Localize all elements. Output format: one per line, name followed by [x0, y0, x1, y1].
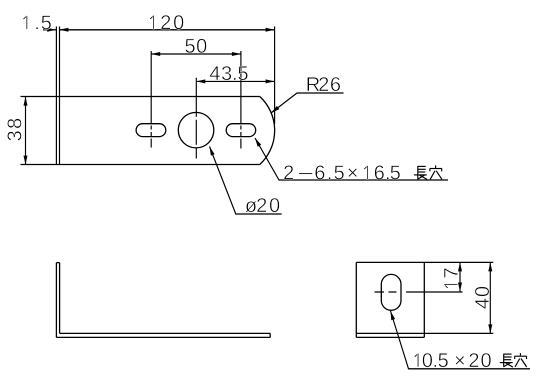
- L right cap: [269, 333, 271, 337]
- kanji 穴 (bottom): [515, 353, 527, 367]
- text 50: [185, 39, 206, 53]
- top view: plate right end arc R26: [260, 97, 275, 165]
- end view slot 10.5x20: [381, 274, 401, 310]
- arrow 1.5 left (tip x56.2 pointing right): [47, 28, 56, 32]
- end view: [356, 262, 493, 337]
- dim line 50: [151, 53, 241, 55]
- arrowheads top view: [24, 28, 280, 165]
- L outer left vertical: [55, 263, 57, 338]
- L inner vertical: [59, 263, 61, 334]
- centerline right slot: [240, 51, 242, 149]
- dim line 40: [489, 262, 491, 333]
- kanji 長穴 top: [414, 165, 442, 179]
- arrow leader 10.5x20: [391, 311, 396, 320]
- arrow slot leader: [255, 138, 261, 147]
- dim line 120: [59, 29, 274, 31]
- underline 10.5x20: [409, 368, 531, 370]
- text 40 rotated: [475, 287, 489, 309]
- text 1.5: [23, 16, 51, 30]
- leader R26: [271, 93, 344, 113]
- arrow 120 right (tip 274.6 pointing right): [266, 28, 275, 32]
- text ø20: [245, 198, 279, 212]
- dim line 43.5: [196, 80, 274, 82]
- centerline left slot: [150, 51, 152, 148]
- arrow 40 bottom: [488, 324, 492, 333]
- arrow 38 bottom: [24, 156, 28, 165]
- top view: left slot 6.5x16.5: [136, 124, 166, 137]
- arrow 17 bottom: [458, 283, 462, 292]
- extension line right end: [274, 27, 276, 125]
- text 120: [150, 15, 184, 29]
- text 2-6.5x16.5: [284, 165, 400, 179]
- arrow 17 top: [458, 262, 462, 271]
- centerline circle: [195, 78, 197, 159]
- end view rect left: [355, 262, 357, 337]
- top view: bent flange thickness line outer: [55, 27, 57, 165]
- kanji 長 (top): [414, 166, 427, 179]
- L top cap: [56, 262, 59, 264]
- arrow 43.5 left: [196, 79, 205, 83]
- arrow 50 left: [151, 52, 160, 56]
- dim line 38: [25, 97, 27, 165]
- underline ø20: [236, 213, 282, 215]
- top view: right slot 6.5x16.5: [226, 124, 256, 137]
- leader slot callout: [255, 138, 448, 180]
- leader ø20: [210, 147, 282, 215]
- dim line 120 tail left: [43, 29, 56, 31]
- top view: plate bottom edge with left extension: [21, 164, 260, 166]
- arrow 43.5 right: [266, 79, 275, 83]
- arrow ø20 leader: [210, 147, 215, 156]
- dim line 17: [459, 262, 461, 291]
- arrow R26 leader: [271, 106, 279, 113]
- L bottom outer: [56, 336, 270, 338]
- side view L profile: [56, 263, 270, 338]
- text 38 rotated: [7, 119, 21, 141]
- kanji 長 (bottom): [500, 354, 513, 367]
- text 43.5: [210, 66, 248, 80]
- arrow 50 right: [232, 52, 241, 56]
- end view rect top + extension: [356, 261, 493, 263]
- texts top view (as paths): [7, 15, 400, 212]
- kanji 長穴 bottom: [500, 353, 527, 367]
- top view: bent flange thickness line inner: [59, 27, 61, 165]
- text 17 rotated: [444, 268, 458, 288]
- arrow 40 top: [488, 262, 492, 271]
- arrow 38 top: [24, 97, 28, 106]
- end view inner bottom line + extension: [356, 332, 493, 334]
- end view rect bottom: [356, 336, 424, 338]
- text R26: [307, 77, 340, 91]
- leader 10.5x20: [391, 311, 531, 369]
- underlines: [279, 93, 448, 180]
- arrow 120/1.5 at inner line (tip 59.4 pointing left): [59, 28, 68, 32]
- text 10.5x20: [414, 353, 491, 367]
- kanji 穴 (top): [430, 165, 442, 179]
- end view rect right: [423, 262, 425, 337]
- top view: plate top edge with left extension: [21, 96, 260, 98]
- underline slot callout: [279, 179, 448, 181]
- end view slot horizontal centerline: [375, 291, 463, 293]
- underline R26: [297, 92, 344, 94]
- dash of 2-6.5: [299, 173, 313, 174]
- top view: circle hole ø20: [178, 112, 214, 148]
- L inner horizontal: [60, 332, 271, 334]
